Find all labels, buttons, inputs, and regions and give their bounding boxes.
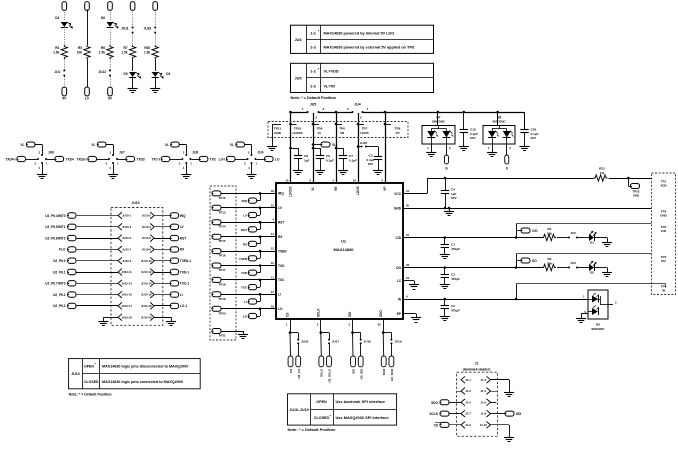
svg-text:14: 14 xyxy=(271,232,275,236)
svg-text:LO-I: LO-I xyxy=(219,158,225,162)
svg-text:OPEN: OPEN xyxy=(316,400,327,404)
svg-text:SDO: SDO xyxy=(382,368,386,375)
svg-text:CS: CS xyxy=(434,423,438,427)
svg-text:1.5k: 1.5k xyxy=(99,51,105,55)
svg-text:SDI: SDI xyxy=(348,312,352,317)
svg-text:JU11: JU11 xyxy=(121,27,129,31)
svg-text:JU4: JU4 xyxy=(295,38,303,42)
svg-text:U2_P6.2: U2_P6.2 xyxy=(53,293,66,297)
svg-text:1µF: 1µF xyxy=(304,159,310,163)
svg-text:TXEN: TXEN xyxy=(278,249,287,253)
svg-text:R5: R5 xyxy=(78,46,82,50)
svg-text:470pF: 470pF xyxy=(451,308,460,312)
svg-text:U2_SCLK: U2_SCLK xyxy=(328,368,332,383)
svg-text:JU4: JU4 xyxy=(354,103,360,107)
svg-text:JU10: JU10 xyxy=(71,372,80,376)
svg-text:SMCDNC: SMCDNC xyxy=(432,120,446,124)
svg-text:TP14: TP14 xyxy=(218,225,226,229)
svg-text:TP19: TP19 xyxy=(218,297,226,301)
svg-text:C/D: C/D xyxy=(396,236,402,240)
svg-text:JU8: JU8 xyxy=(192,151,198,155)
svg-text:SCLK: SCLK xyxy=(429,412,438,416)
svg-text:SDI: SDI xyxy=(516,412,521,416)
svg-text:JU12: JU12 xyxy=(98,70,106,74)
svg-text:J1-1: J1-1 xyxy=(465,378,471,382)
svg-text:RST: RST xyxy=(278,221,284,225)
svg-text:16: 16 xyxy=(271,304,275,308)
svg-text:5V: 5V xyxy=(108,97,113,101)
svg-text:CS: CS xyxy=(286,313,290,317)
svg-text:20k: 20k xyxy=(547,231,552,235)
svg-text:VL: VL xyxy=(20,143,24,147)
svg-text:LI: LI xyxy=(180,293,183,297)
svg-text:C8: C8 xyxy=(304,154,308,158)
svg-text:VP: VP xyxy=(395,131,399,135)
svg-text:2-3: 2-3 xyxy=(310,84,316,88)
svg-text:JU10-8: JU10-8 xyxy=(142,248,151,252)
svg-text:J1-7: J1-7 xyxy=(465,412,471,416)
svg-text:50V: 50V xyxy=(470,136,476,140)
svg-text:SMCDNC: SMCDNC xyxy=(591,327,605,331)
svg-text:TXD4-I: TXD4-I xyxy=(5,158,15,162)
svg-text:5V: 5V xyxy=(62,97,67,101)
svg-text:23: 23 xyxy=(406,263,410,267)
svg-text:TP15: TP15 xyxy=(218,239,226,243)
svg-text:VCC: VCC xyxy=(394,192,401,196)
svg-text:JU18: JU18 xyxy=(364,340,372,344)
svg-text:CLOSED: CLOSED xyxy=(84,380,99,384)
svg-text:J1-9: J1-9 xyxy=(465,423,471,427)
svg-text:U2_P6.4/INT0: U2_P6.4/INT0 xyxy=(45,214,65,218)
svg-text:J1: J1 xyxy=(475,362,479,366)
svg-text:OPEN: OPEN xyxy=(84,365,94,369)
svg-text:GND: GND xyxy=(660,214,668,218)
svg-text:12: 12 xyxy=(271,261,275,265)
svg-text:TXEN-1: TXEN-1 xyxy=(180,259,192,263)
svg-text:MAX14830 powered by internal 5: MAX14830 powered by internal 5V LDO xyxy=(324,32,395,36)
svg-text:10: 10 xyxy=(285,179,289,183)
svg-text:LO: LO xyxy=(278,307,283,311)
svg-text:J1-4: J1-4 xyxy=(480,389,486,393)
svg-text:VL=5V: VL=5V xyxy=(324,84,336,88)
svg-text:D3: D3 xyxy=(166,72,170,76)
svg-text:SDI: SDI xyxy=(351,369,355,374)
svg-text:VL: VL xyxy=(165,143,169,147)
svg-text:IN: IN xyxy=(662,289,665,293)
svg-text:TP21: TP21 xyxy=(218,334,226,338)
svg-text:10k: 10k xyxy=(77,51,83,55)
svg-text:U2_P6.1: U2_P6.1 xyxy=(53,270,66,274)
svg-text:31: 31 xyxy=(406,233,410,237)
svg-text:470pF: 470pF xyxy=(451,247,460,251)
svg-text:2-3: 2-3 xyxy=(310,46,316,50)
svg-text:LV: LV xyxy=(243,214,247,218)
svg-text:Note: * = Default Position: Note: * = Default Position xyxy=(288,427,336,432)
svg-text:VL: VL xyxy=(311,186,315,190)
svg-text:32: 32 xyxy=(378,323,382,327)
svg-text:LDO5: LDO5 xyxy=(360,131,369,135)
svg-text:R6: R6 xyxy=(101,46,105,50)
svg-text:U2_P6.6/INT2: U2_P6.6/INT2 xyxy=(45,236,65,240)
svg-text:LO: LO xyxy=(243,315,248,319)
svg-text:JU10-3: JU10-3 xyxy=(122,225,131,229)
svg-text:VL: VL xyxy=(318,131,322,135)
svg-text:1.5k: 1.5k xyxy=(144,51,150,55)
svg-text:JU10-11: JU10-11 xyxy=(121,270,132,274)
svg-text:1.5k: 1.5k xyxy=(53,51,59,55)
svg-text:20k: 20k xyxy=(547,261,552,265)
svg-text:JU10-4: JU10-4 xyxy=(142,225,151,229)
svg-text:DO: DO xyxy=(396,266,401,270)
svg-text:JU5: JU5 xyxy=(310,103,316,107)
svg-text:JU10-2: JU10-2 xyxy=(142,214,151,218)
svg-text:TXD: TXD xyxy=(278,264,285,268)
svg-text:JU10-7: JU10-7 xyxy=(122,248,131,252)
svg-text:TP17: TP17 xyxy=(218,268,226,272)
svg-text:JU10-13: JU10-13 xyxy=(121,281,132,285)
svg-text:RST: RST xyxy=(180,236,186,240)
svg-text:JU6: JU6 xyxy=(48,151,54,155)
svg-text:U2_P6.5/INT1: U2_P6.5/INT1 xyxy=(45,225,65,229)
svg-text:1-2: 1-2 xyxy=(310,70,316,74)
svg-text:JU7: JU7 xyxy=(119,151,125,155)
svg-text:TXD-1: TXD-1 xyxy=(180,270,189,274)
svg-text:TP18: TP18 xyxy=(218,282,226,286)
svg-text:LC: LC xyxy=(397,279,402,283)
svg-text:JU16: JU16 xyxy=(301,340,309,344)
svg-text:J1-10: J1-10 xyxy=(480,423,488,427)
svg-text:JU10: JU10 xyxy=(131,201,139,205)
svg-text:TXD4: TXD4 xyxy=(66,158,74,162)
svg-text:C/D: C/D xyxy=(532,229,538,233)
svg-text:U1: U1 xyxy=(341,239,347,244)
svg-text:SDO: SDO xyxy=(431,401,438,405)
svg-text:470pF: 470pF xyxy=(451,277,460,281)
svg-text:JU19: JU19 xyxy=(394,340,402,344)
svg-text:JU10-17: JU10-17 xyxy=(121,304,132,308)
svg-text:JU10-12: JU10-12 xyxy=(141,270,152,274)
svg-text:TXEN: TXEN xyxy=(239,257,247,261)
svg-text:LDO33: LDO33 xyxy=(293,131,303,135)
svg-text:JU17: JU17 xyxy=(332,340,340,344)
svg-text:JU10-16: JU10-16 xyxy=(141,293,152,297)
svg-text:D1: D1 xyxy=(590,241,594,245)
svg-text:11: 11 xyxy=(271,275,274,279)
svg-text:TXD3-I: TXD3-I xyxy=(76,158,86,162)
svg-text:15: 15 xyxy=(271,203,275,207)
svg-text:SCLK: SCLK xyxy=(317,308,321,317)
svg-text:U2_P6.3: U2_P6.3 xyxy=(53,304,66,308)
svg-text:MAX14830 logic pins disconnect: MAX14830 logic pins disconnected to MAXQ… xyxy=(102,365,188,369)
svg-text:TP12: TP12 xyxy=(218,196,226,200)
svg-text:SMCDNC: SMCDNC xyxy=(492,120,506,124)
svg-text:IRQ: IRQ xyxy=(242,199,248,203)
svg-text:VB: VB xyxy=(334,186,338,191)
svg-text:RX: RX xyxy=(243,242,247,246)
svg-text:U2_P6.7/INT3: U2_P6.7/INT3 xyxy=(45,282,65,286)
svg-text:0.1µF: 0.1µF xyxy=(349,159,357,163)
svg-text:LI: LI xyxy=(278,293,281,297)
svg-text:TP16: TP16 xyxy=(218,254,226,258)
svg-text:J1-2: J1-2 xyxy=(480,378,486,382)
svg-text:TXC: TXC xyxy=(278,278,285,282)
svg-text:TXD: TXD xyxy=(241,271,248,275)
svg-text:Note: * = Default Position: Note: * = Default Position xyxy=(291,96,337,100)
svg-text:D2: D2 xyxy=(590,271,594,275)
svg-text:LO-1: LO-1 xyxy=(180,304,187,308)
svg-text:IRQ: IRQ xyxy=(180,214,186,218)
svg-text:R7: R7 xyxy=(124,46,128,50)
svg-text:50V: 50V xyxy=(451,196,457,200)
svg-text:DO: DO xyxy=(532,259,537,263)
svg-text:TXC: TXC xyxy=(210,158,217,162)
svg-text:U2_P6.0: U2_P6.0 xyxy=(53,259,66,263)
svg-text:U2_SDI: U2_SDI xyxy=(359,369,363,380)
svg-text:D6: D6 xyxy=(101,16,105,20)
svg-text:J1-3: J1-3 xyxy=(465,389,471,393)
svg-text:Use MAXQ2000 SPI interface: Use MAXQ2000 SPI interface xyxy=(336,415,390,420)
svg-text:RST: RST xyxy=(241,228,247,232)
svg-text:CLOSED: CLOSED xyxy=(314,416,330,420)
svg-text:JU10-1: JU10-1 xyxy=(122,214,131,218)
svg-text:VDD: VDD xyxy=(660,184,667,188)
svg-text:TP20: TP20 xyxy=(218,311,226,315)
svg-text:J1-6: J1-6 xyxy=(480,400,486,404)
svg-text:U2_CS: U2_CS xyxy=(297,369,301,379)
svg-text:FLO: FLO xyxy=(59,248,66,252)
svg-text:JU10-15: JU10-15 xyxy=(121,293,132,297)
svg-text:JU10-14: JU10-14 xyxy=(141,281,152,285)
svg-text:17: 17 xyxy=(271,290,275,294)
svg-text:JU10-5: JU10-5 xyxy=(122,236,131,240)
svg-text:JU18: JU18 xyxy=(144,27,152,31)
svg-text:D4: D4 xyxy=(55,16,59,20)
svg-text:JU5: JU5 xyxy=(295,76,302,80)
svg-text:U2_SDO: U2_SDO xyxy=(390,368,394,381)
svg-text:JU10-20: JU10-20 xyxy=(141,315,152,319)
svg-text:JU10-6: JU10-6 xyxy=(142,236,151,240)
svg-text:VL: VL xyxy=(91,143,95,147)
svg-text:TXC-I: TXC-I xyxy=(151,158,159,162)
svg-text:LO: LO xyxy=(275,158,280,162)
svg-text:VL: VL xyxy=(230,143,234,147)
svg-text:Use Aardvark SPI interface: Use Aardvark SPI interface xyxy=(336,399,386,404)
svg-text:JU10-10: JU10-10 xyxy=(141,259,152,263)
svg-text:16: 16 xyxy=(406,276,410,280)
svg-text:SCLK: SCLK xyxy=(320,368,324,377)
svg-text:13: 13 xyxy=(271,247,275,251)
svg-text:LDO33: LDO33 xyxy=(289,186,293,197)
svg-text:8: 8 xyxy=(506,167,508,171)
svg-text:CS: CS xyxy=(289,369,293,373)
svg-text:JU16–JU19: JU16–JU19 xyxy=(289,408,308,412)
svg-text:VL=VDD: VL=VDD xyxy=(324,70,339,74)
svg-text:VDD: VDD xyxy=(633,193,640,197)
svg-text:JU2: JU2 xyxy=(570,231,576,235)
svg-text:21: 21 xyxy=(406,189,410,193)
svg-text:VB: VB xyxy=(340,131,345,135)
svg-text:J1-5: J1-5 xyxy=(465,400,471,404)
svg-text:JU22: JU22 xyxy=(360,141,368,145)
svg-text:DO: DO xyxy=(661,259,666,263)
svg-text:0.1µF: 0.1µF xyxy=(326,159,334,163)
svg-text:R20: R20 xyxy=(144,46,150,50)
svg-text:1.5k: 1.5k xyxy=(121,51,127,55)
svg-text:Note: * = Default Position: Note: * = Default Position xyxy=(69,393,112,397)
svg-text:50V: 50V xyxy=(368,162,374,166)
svg-text:(Aardvark Header): (Aardvark Header) xyxy=(463,368,491,372)
svg-text:JU9: JU9 xyxy=(258,151,264,155)
svg-text:MAX14830 powered by external 5: MAX14830 powered by external 5V applied … xyxy=(324,46,415,50)
svg-text:VL: VL xyxy=(332,143,336,147)
svg-text:24: 24 xyxy=(353,179,357,183)
svg-text:JU10-19: JU10-19 xyxy=(121,315,132,319)
svg-text:LDO5: LDO5 xyxy=(356,186,360,195)
svg-text:MAX14830: MAX14830 xyxy=(333,247,354,252)
svg-text:18: 18 xyxy=(271,189,275,193)
svg-text:R4: R4 xyxy=(55,46,59,50)
svg-text:JU10-18: JU10-18 xyxy=(141,304,152,308)
svg-text:C/D: C/D xyxy=(661,229,667,233)
svg-text:50V: 50V xyxy=(531,136,537,140)
svg-text:J1-8: J1-8 xyxy=(480,412,486,416)
svg-text:JU3: JU3 xyxy=(570,261,576,265)
svg-text:TXC: TXC xyxy=(241,286,248,290)
svg-text:20: 20 xyxy=(406,204,410,208)
svg-text:JU1: JU1 xyxy=(54,70,60,74)
svg-text:D5: D5 xyxy=(124,72,128,76)
svg-text:LI: LI xyxy=(244,300,247,304)
svg-text:TP13: TP13 xyxy=(218,210,226,214)
svg-text:MAX14830 logic pins connected: MAX14830 logic pins connected to MAXQ200… xyxy=(102,380,183,384)
svg-text:C7: C7 xyxy=(349,154,353,158)
svg-text:C6: C6 xyxy=(326,154,330,158)
svg-text:JU10-9: JU10-9 xyxy=(122,259,131,263)
svg-text:TXC-1: TXC-1 xyxy=(180,282,189,286)
svg-text:IRQ: IRQ xyxy=(278,192,284,196)
svg-text:1-2: 1-2 xyxy=(310,32,316,36)
svg-text:1Ω: 1Ω xyxy=(600,171,605,175)
svg-text:GND: GND xyxy=(274,131,282,135)
svg-text:TXD3: TXD3 xyxy=(137,158,145,162)
svg-text:GND: GND xyxy=(394,206,402,210)
svg-text:SDO: SDO xyxy=(379,310,383,317)
